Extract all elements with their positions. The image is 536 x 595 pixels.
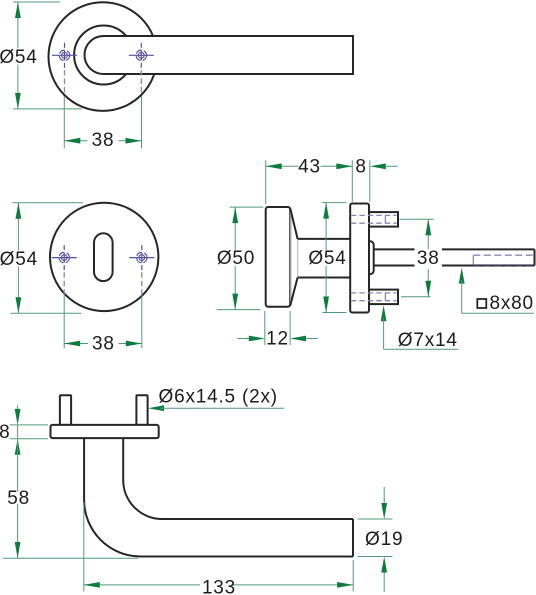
arrow up [15,2,21,18]
grip back edge faint [289,209,291,305]
svg-text:38: 38 [92,130,115,151]
extension line circle bottom [10,312,81,314]
spindle end cap [534,249,536,265]
svg-text:8: 8 [0,422,10,443]
svg-text:Ø54: Ø54 [0,47,38,68]
square symbol [477,299,486,308]
extension line grip right 12 [289,311,291,345]
bearing collar behind rose [364,241,374,274]
rose inner collar circle [74,26,133,85]
extension line grip top right [358,518,393,520]
leader D6x14.5 [148,405,164,411]
fixing pin right [136,395,147,425]
hidden square spindle 8x80 [473,255,533,264]
extension line plate top 8 [10,424,48,426]
extension line grip bottom D50 [217,309,261,311]
svg-text:Ø19: Ø19 [365,529,403,550]
dimension 8 arrows outside [17,405,19,409]
extension line grip left [265,160,267,204]
neck bottom line [298,277,351,279]
svg-text:58: 58 [7,488,30,509]
arrow up [16,203,22,219]
fixing screw bottom [369,290,398,305]
svg-text:12: 12 [266,329,289,350]
grip end cylinder [266,207,291,307]
lever bar [85,36,353,74]
arrow right [126,138,142,144]
dimension line D54 vertical [17,2,19,49]
dimension 12 arrows outside [237,338,249,340]
spindle shaft bottom line [374,265,415,267]
dimension line 133 [84,584,200,586]
lever end cap [352,519,354,557]
arrow right [126,341,142,347]
svg-text:43: 43 [298,156,321,177]
svg-text:Ø7x14: Ø7x14 [398,330,458,351]
rose outer circle [49,2,158,111]
lever neck left edge [84,438,353,556]
extension line circle top [12,202,83,204]
svg-text:8: 8 [355,156,366,177]
screw center mark left [52,43,77,68]
arrow 8 outside [370,163,386,169]
svg-text:38: 38 [417,248,440,269]
dimension line D50 vertical [234,207,236,250]
extension line right screw [141,96,143,148]
extension line plate bottom 8 [10,438,48,440]
extension line grip top D50 [230,206,264,208]
dimension line 43 [266,165,299,167]
arrow left [64,341,80,347]
rose plate side [350,204,369,313]
rose plate profile [51,425,159,438]
fixing pin left [60,395,71,425]
svg-text:Ø6x14.5 (2x): Ø6x14.5 (2x) [159,387,278,408]
arrow down [16,297,22,313]
extension line 133 left [83,502,85,592]
screw center mark right [129,245,154,270]
svg-text:Ø54: Ø54 [0,249,38,270]
dimension line D54 vertical [17,203,19,251]
screw center mark right [129,43,154,68]
hidden centerline left screw [64,70,66,96]
dimension line D54 vertical [325,203,327,250]
keyhole slot [94,233,113,281]
hidden centerline left screw [63,272,65,295]
svg-text:133: 133 [202,578,236,595]
fixing screw top [369,212,398,227]
leader D7x14 [381,305,387,321]
extension line circle top [13,1,60,3]
svg-text:Ø54: Ø54 [308,248,346,269]
extension line grip left 12 [264,311,266,345]
extension line grip bottom right [358,556,393,558]
hidden centerline right screw [141,272,143,295]
extension line rose right [369,160,371,202]
dimension line 38 horizontal [64,140,87,142]
svg-text:38: 38 [92,334,115,355]
screw center mark left [52,245,77,270]
extension line right screw [141,295,143,348]
extension line screw bottom center [401,296,431,298]
extension line circle bottom [13,108,82,110]
leader square 8x80 [459,268,465,284]
svg-text:Ø50: Ø50 [217,248,255,269]
screw bottom hidden thread lines [351,293,397,301]
escutcheon circle [50,203,158,311]
taper bottom [290,278,297,306]
extension line left screw [63,295,65,348]
hidden centerline right screw [140,70,142,95]
extension line left screw [63,96,65,148]
dimension line 38 horizontal [64,343,88,345]
arrow down [15,93,21,109]
arrow left [64,138,80,144]
dimension line 38 vertical [427,219,429,249]
extension line screw top center [399,218,434,220]
extension line rose top D54 [322,202,347,204]
extension line 133 right [352,560,354,592]
extension line rose left [351,160,353,202]
dimension D19 arrows outside [383,487,385,504]
dimension line 58 [17,439,19,492]
extension line lever bottom [3,557,138,559]
svg-text:8x80: 8x80 [490,293,534,314]
neck top line [298,238,351,240]
spindle shaft top line [374,248,415,250]
neck start faint edge [297,240,299,278]
extension line rose bottom D54 [322,312,346,314]
lever neck right edge [123,438,353,519]
screw top hidden thread lines [351,215,397,223]
taper top [290,209,297,239]
